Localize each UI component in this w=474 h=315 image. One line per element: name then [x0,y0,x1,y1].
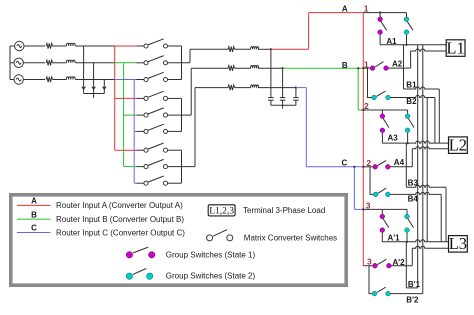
svg-text:B'2: B'2 [406,295,419,304]
inductor Ls1 [66,43,75,46]
junction node [362,67,364,69]
wire output A red riser [308,13,310,50]
wire S8 to bus g3 [168,166,195,168]
svg-text:A'1: A'1 [388,234,401,243]
capacitor C1 bottom wire [270,100,272,105]
legend group switch state2 symbol [126,269,153,280]
wire tap group3 [354,208,362,210]
wire B1 drop from L1 [403,45,405,89]
wire Lf3 to node C [258,87,296,89]
junction node [405,44,407,46]
legend matrix switch symbol [207,230,233,241]
node B junction [281,67,283,69]
wire Rf3 to Lf3 [235,87,251,89]
svg-text:L2: L2 [449,136,467,155]
wire Rf2 to Lf2 [235,67,251,69]
arrow bank stub [93,94,95,98]
matrix switch S4 [144,91,168,100]
wire stub source 1 [10,45,15,47]
router C distribution vertical (blue) [353,167,355,210]
wire phase3 to R3 [23,79,45,81]
left supply bus wire [9,46,11,80]
wire drop phase1 to arrow bank [83,46,85,86]
capacitor bank common bar wire [271,104,296,106]
matrix switch S5 [144,108,168,117]
wire cyan3 drop [406,209,408,214]
group 3 output bus wire [181,150,183,183]
arrow phase2 [91,87,96,91]
junction node [362,208,364,210]
resistor R3 [46,77,53,82]
legend terminal box L1,2,3 [208,205,235,217]
wire B3 drop from L2 [405,143,407,187]
svg-text:Group Switches (State 2): Group Switches (State 2) [166,272,256,281]
capacitor C1 [268,98,274,101]
wire B'1 run [406,287,417,289]
wire Lf1 to node A [258,48,271,50]
group switch pair (state 2) bottom [405,214,414,232]
wire phase2 to matrix [75,62,114,64]
resistor R2 [46,60,53,65]
svg-text:A2: A2 [392,59,403,68]
wire cyan3 bottom to L3 node [406,233,408,242]
legend box [11,195,346,285]
inductor Lf1 [251,47,259,50]
group 1 output bus wire [181,46,183,80]
AC source V1 [15,41,24,50]
capacitor C3 [293,98,299,101]
svg-text:B: B [342,61,348,70]
svg-text:Matrix Converter Switches: Matrix Converter Switches [244,233,337,242]
AC source V3 [14,75,23,84]
node A junction [270,48,272,50]
wire A'1 drop [381,209,383,214]
wire tap group2 [362,109,408,111]
node B input vertical (green) [123,63,125,167]
wire cyan1 bottom to L1 node [406,35,408,45]
inductor Lf3 [251,85,259,88]
wire A3 bottom to L2 node [381,133,383,143]
group switch B'2 pair (state 2) [372,287,390,296]
wire cyan1 drop [406,13,408,17]
legend green line B [17,218,51,220]
wire red stub row1 [115,45,137,47]
capacitor C2 [280,98,286,101]
wire arrow1 to bar [83,89,85,94]
junction node [407,142,409,144]
wire S6 to bus g2 [168,130,182,132]
wire output A to Rf1 [190,49,228,63]
svg-text:C: C [342,158,348,167]
wire B'2 left riser [369,266,372,294]
wire output C blue horizontal [296,87,306,89]
svg-text:L1,2,3: L1,2,3 [209,206,234,216]
matrix switch S6 [144,124,168,133]
resistor Rf1 [228,47,235,52]
wire S4 to bus g2 [168,97,182,99]
arrow bank common bar wire [84,93,105,95]
wire stub source 2 [10,62,14,64]
L1 node wire [380,44,446,46]
group switch A'1 pair (state 1) [380,214,389,232]
svg-text:L3: L3 [449,234,467,253]
AC source V2 [14,58,23,67]
wire A'2 to riser [391,265,412,267]
svg-text:B2: B2 [406,97,417,106]
wire B'1 drop from L3 [405,242,407,288]
wire B2 left riser [368,68,372,97]
wire A4 riser to L2 [411,149,413,167]
wire S9 to bus g3 [168,182,182,184]
group switch B4 pair (state 2) [373,188,390,197]
wire R1 to L1 [53,45,67,47]
svg-text:Terminal 3-Phase Load: Terminal 3-Phase Load [243,206,325,215]
wire A'2 riser to L3 [411,248,413,266]
junction node [362,166,364,168]
wire B'2 run [391,293,423,295]
wire output A red horizontal [271,48,309,50]
junction node [353,166,355,168]
svg-text:2: 2 [364,101,369,111]
group switch A3 pair (state 1) [380,114,389,133]
wire S3 to bus g1 [168,79,182,81]
svg-text:Router Input A (Converter Outp: Router Input A (Converter Output A) [56,201,183,210]
group switch B2 pair (state 2) [372,91,391,100]
wire A2 to riser [389,67,411,69]
wire A1 bottom to L1 node [379,35,381,45]
wire B2 drop to L3 [426,98,428,242]
wire blue stub row9 [134,182,136,184]
matrix switch S7 [144,143,168,152]
legend red line A [17,204,51,206]
wire B3 drop to L3 [445,187,447,242]
L2 node wire [382,141,448,143]
group switch A4 pair (state 1) [363,160,390,169]
resistor Rf2 [228,66,235,71]
wire cyan2 bottom to L2 node [407,133,409,143]
wire stub source 3 [10,79,14,81]
wire arrow3 to bar [103,89,105,94]
svg-text:C: C [31,224,37,233]
L3 node wire [382,240,448,242]
wire green stub row8 [124,166,137,168]
svg-text:B4: B4 [408,194,419,203]
wire B4 drop to L3 [440,194,442,241]
wire phase2 to R2 [23,62,45,64]
group switch A2 pair (state 1) [363,62,388,71]
capacitor C2 bottom wire [282,100,284,105]
svg-text:Router Input C (Converter Outp: Router Input C (Converter Output C) [56,228,185,237]
wire R2 to L2 [53,62,67,64]
capacitor C1 top wire [270,49,272,97]
wire cyan2 drop [407,110,409,114]
wire drop phase3 to arrow bank [103,80,105,87]
matrix switch S1 [144,39,168,48]
wire blue stub row3 [115,79,137,81]
svg-text:A: A [342,4,348,13]
node C input vertical (blue) [133,80,135,184]
wire Rf1 to Lf1 [235,48,251,50]
capacitor C3 bottom wire [295,100,297,105]
resistor Rf3 [228,85,235,90]
svg-text:L1: L1 [446,38,464,57]
resistor R1 [46,43,53,48]
wire Lf2 to node B [258,67,283,69]
wire A4 to riser [390,166,412,168]
group switch pair (state 2) mid [405,114,414,133]
wire green stub row2 [115,62,137,64]
wire output A red top run [309,12,364,14]
wire phase1 to matrix [75,45,114,47]
terminal L1 [446,38,465,57]
capacitor bank stub [282,105,284,108]
wire S7 to bus g3 [168,149,182,151]
svg-text:A3: A3 [388,133,399,142]
svg-text:Router Input B (Converter Outp: Router Input B (Converter Output B) [56,215,184,224]
wire green stub row5 [124,114,137,116]
svg-text:B: B [31,210,37,219]
svg-text:A: A [31,197,37,206]
wire green tap group2 [381,110,383,114]
wire output B green run [283,67,364,69]
wire B3 run [406,185,446,187]
group 2 output bus wire [181,98,183,131]
wire R3 to L3 [53,79,67,81]
svg-text:Group Switches (State 1): Group Switches (State 1) [166,250,256,259]
wire tap group1 top [363,12,406,14]
capacitor C3 top wire [295,88,297,98]
terminal L2 [449,136,468,155]
wire phase3 to matrix [75,79,114,81]
inductor Ls3 [66,77,75,80]
matrix switch S3 [144,72,168,81]
router A distribution vertical (red) [362,13,364,266]
inductor Ls2 [66,60,75,63]
wire A2 riser to L1 [410,51,412,68]
router B distribution vertical (green) [358,68,361,110]
arrow phase3 [102,87,107,91]
matrix switch S9 [144,176,168,185]
arrow phase1 [81,87,86,91]
matrix switch S8 [144,159,168,168]
junction node [357,67,359,69]
wire drop phase2 to arrow bank [93,63,95,87]
junction node [406,241,408,243]
terminal L3 [449,234,468,253]
wire output C blue run [306,166,363,168]
wire A1 drop [379,13,381,17]
wire arrow2 to bar [93,89,95,94]
wire B4 left riser [370,167,373,195]
wire output C blue drop [305,88,307,167]
group switch A'2 pair (state 1) [363,259,391,268]
wire S2 to bus g1 [168,62,190,64]
legend blue line C [17,232,51,234]
junction tap1-A1 [379,11,381,13]
inductor Lf2 [251,65,259,68]
node C junction [295,86,297,88]
wire B'2 riser bus [422,45,424,294]
svg-text:A4: A4 [394,158,405,167]
svg-text:B3: B3 [408,179,419,188]
wire S1 to bus g1 [168,45,182,47]
group switch A1 pair (state 1) [378,17,387,34]
wire red stub row7 [115,149,137,151]
wire B4 run [390,192,441,194]
node A input vertical (red) [114,46,116,150]
junction node [362,109,364,111]
group switch pair (state 2) top [404,17,413,34]
wire output B to Rf2 [191,68,228,115]
capacitor C2 top wire [282,68,284,97]
wire B'1 riser bus [417,45,419,288]
wire blue stub row6 [134,130,136,132]
wire B1 run [404,87,440,89]
wire S5 to bus g2 [168,114,192,116]
wire red stub row4 [115,97,137,99]
wire output C to Rf3 [195,88,228,167]
matrix switch S2 [144,56,168,65]
wire B1 drop to L2 [438,89,440,143]
legend group switch state1 symbol [126,247,155,258]
wire A'1 bottom to L3 node [381,233,383,242]
wire phase1 to R1 [24,45,45,47]
wire B2 run [391,96,435,98]
